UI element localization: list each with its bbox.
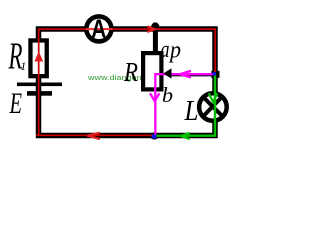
junction blob right node (211, 71, 219, 78)
green arrow down in lamp (209, 93, 218, 102)
wire magenta slider path (155, 74, 216, 135)
svg-text:R: R (123, 57, 138, 87)
junction dot top node (151, 22, 159, 30)
junction blob bottom node (150, 132, 159, 139)
wire red bright segment in ammeter (86, 28, 113, 30)
ammeter U A body (86, 16, 111, 41)
wire slider shaft (168, 73, 213, 76)
svg-text:a: a (161, 37, 170, 63)
red arrow top wire (147, 26, 154, 32)
lamp L body (199, 93, 227, 121)
red arrow in R1 (34, 52, 43, 62)
wire main loop (39, 29, 216, 136)
blue dot bottom node (152, 135, 157, 139)
wire red bottom segment (36, 134, 154, 136)
svg-text:1: 1 (20, 59, 26, 73)
svg-text:p: p (168, 38, 181, 64)
svg-text:b: b (162, 83, 173, 107)
battery E top plate (17, 83, 62, 87)
blue dot right node (213, 72, 216, 75)
red arrow bottom wire (87, 133, 100, 139)
svg-text:A: A (91, 13, 106, 43)
rheostat R box (143, 53, 161, 89)
rheostat slider arrowhead (163, 68, 171, 79)
magenta arrow left (180, 71, 191, 78)
battery E bottom plate (27, 91, 52, 96)
resistor R1 box (30, 40, 46, 76)
wire green lamp path (155, 75, 216, 136)
wire stub junction A to rheostat top (153, 26, 158, 53)
svg-text:E: E (9, 87, 22, 120)
lamp L cross (203, 96, 223, 117)
green arrow left bottom wire (180, 133, 190, 139)
wire red current path (39, 29, 216, 135)
svg-text:L: L (184, 96, 199, 127)
magenta arrow down (150, 93, 159, 101)
